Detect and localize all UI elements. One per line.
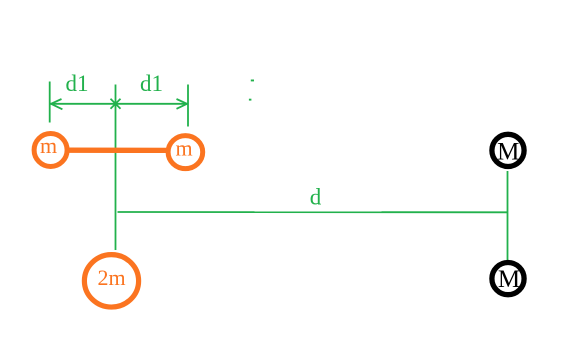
svg-text:2m: 2m <box>97 265 125 290</box>
svg-text:m: m <box>40 133 57 158</box>
svg-text:d1: d1 <box>66 71 89 96</box>
svg-text:M: M <box>497 138 519 165</box>
svg-text:M: M <box>498 266 520 293</box>
svg-text:d1: d1 <box>140 71 163 96</box>
svg-text:m: m <box>175 136 192 161</box>
svg-text:d: d <box>310 184 322 209</box>
